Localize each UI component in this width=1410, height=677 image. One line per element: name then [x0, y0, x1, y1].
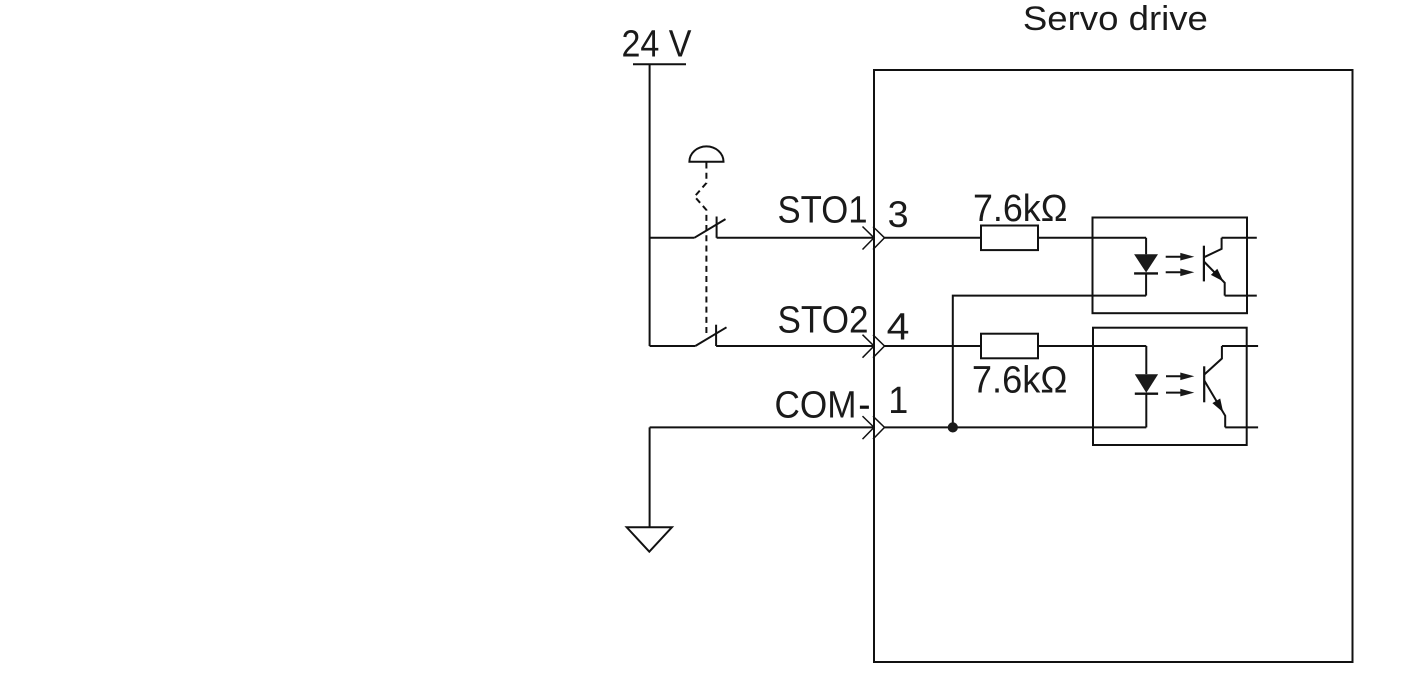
wire 24V vertical feed: [649, 64, 651, 346]
U2 Q2 emitter: [1204, 380, 1225, 427]
svg-text:COM: COM: [775, 384, 857, 426]
U2 Q2 collector lead: [1222, 345, 1258, 347]
wire pin3 to R1: [885, 237, 982, 239]
svg-text:7.6kΩ: 7.6kΩ: [973, 188, 1068, 230]
U2 LED cathode bar: [1135, 393, 1158, 395]
svg-text:Servo drive: Servo drive: [1023, 0, 1208, 38]
U2 Q2 emitter lead: [1225, 426, 1258, 428]
ground symbol: [627, 527, 672, 551]
wire STO2 left: [650, 345, 696, 347]
U2 LED D2 triangle: [1135, 374, 1158, 393]
wire U1 return to COM: [953, 296, 1146, 428]
svg-text:STO2: STO2: [778, 299, 869, 341]
label COM dash: [860, 406, 869, 409]
U1 Q1 emitter arrowhead: [1211, 269, 1224, 282]
svg-text:3: 3: [888, 194, 909, 235]
connector chevron pin 1 inner: [873, 416, 885, 439]
svg-text:STO1: STO1: [778, 189, 868, 231]
U1 light arrow upper: [1166, 253, 1195, 261]
wire COM inside box: [885, 426, 1147, 428]
U2 LED anode wire: [1145, 346, 1147, 374]
svg-text:4: 4: [887, 306, 910, 348]
svg-text:1: 1: [888, 380, 908, 422]
emergency stop button S1 head: [689, 146, 723, 161]
servo drive enclosure box: [874, 70, 1353, 662]
optocoupler U2 package: [1093, 328, 1247, 445]
U2 phototransistor Q2 base bar: [1203, 366, 1205, 402]
contact K1 blade (STO1): [694, 219, 725, 238]
wire COM left: [650, 426, 874, 428]
U2 LED cathode wire: [1145, 393, 1147, 428]
U1 Q1 collector lead: [1222, 237, 1257, 239]
U1 Q1 collector: [1204, 238, 1222, 257]
U1 Q1 emitter lead: [1225, 295, 1257, 297]
contact K1 stop bar: [716, 217, 718, 238]
U1 LED D1 triangle: [1134, 254, 1158, 272]
svg-text:24 V: 24 V: [622, 23, 693, 65]
U2 Q2 emitter arrowhead: [1212, 399, 1223, 413]
connector chevron pin 3 outer: [863, 227, 875, 250]
U1 Q1 emitter: [1204, 262, 1225, 296]
contact K2 stop bar: [715, 325, 717, 346]
optocoupler U1 package: [1093, 218, 1248, 314]
wire R2 to opto U2: [1038, 345, 1146, 347]
wire STO2 right: [716, 345, 874, 347]
resistor R2 body: [981, 334, 1038, 359]
svg-text:7.6kΩ: 7.6kΩ: [972, 359, 1068, 401]
connector chevron pin 4 outer: [863, 335, 875, 358]
wire STO1 left: [650, 237, 695, 239]
U2 light arrow lower: [1166, 389, 1194, 397]
connector chevron pin 1 outer: [863, 416, 875, 439]
connector chevron pin 3 inner: [873, 227, 885, 250]
junction node COM: [948, 422, 958, 432]
wire pin4 to R2: [885, 345, 982, 347]
contact K2 blade (STO2): [695, 327, 726, 346]
U2 Q2 collector: [1204, 346, 1222, 375]
emergency stop operating linkage (dashed): [695, 163, 707, 334]
U1 light arrow lower: [1166, 269, 1195, 277]
U1 LED anode wire: [1145, 238, 1147, 255]
U1 LED cathode bar: [1134, 272, 1158, 274]
wire R1 to opto U1: [1038, 237, 1146, 239]
U2 light arrow upper: [1166, 373, 1194, 381]
U1 phototransistor Q1 base bar: [1203, 246, 1205, 282]
connector chevron pin 4 inner: [873, 335, 885, 358]
U1 LED cathode wire: [1145, 273, 1147, 296]
wire ground drop: [649, 427, 651, 527]
resistor R1 body: [981, 226, 1038, 251]
24V supply bar: [633, 63, 686, 65]
wire STO1 right: [717, 237, 874, 239]
